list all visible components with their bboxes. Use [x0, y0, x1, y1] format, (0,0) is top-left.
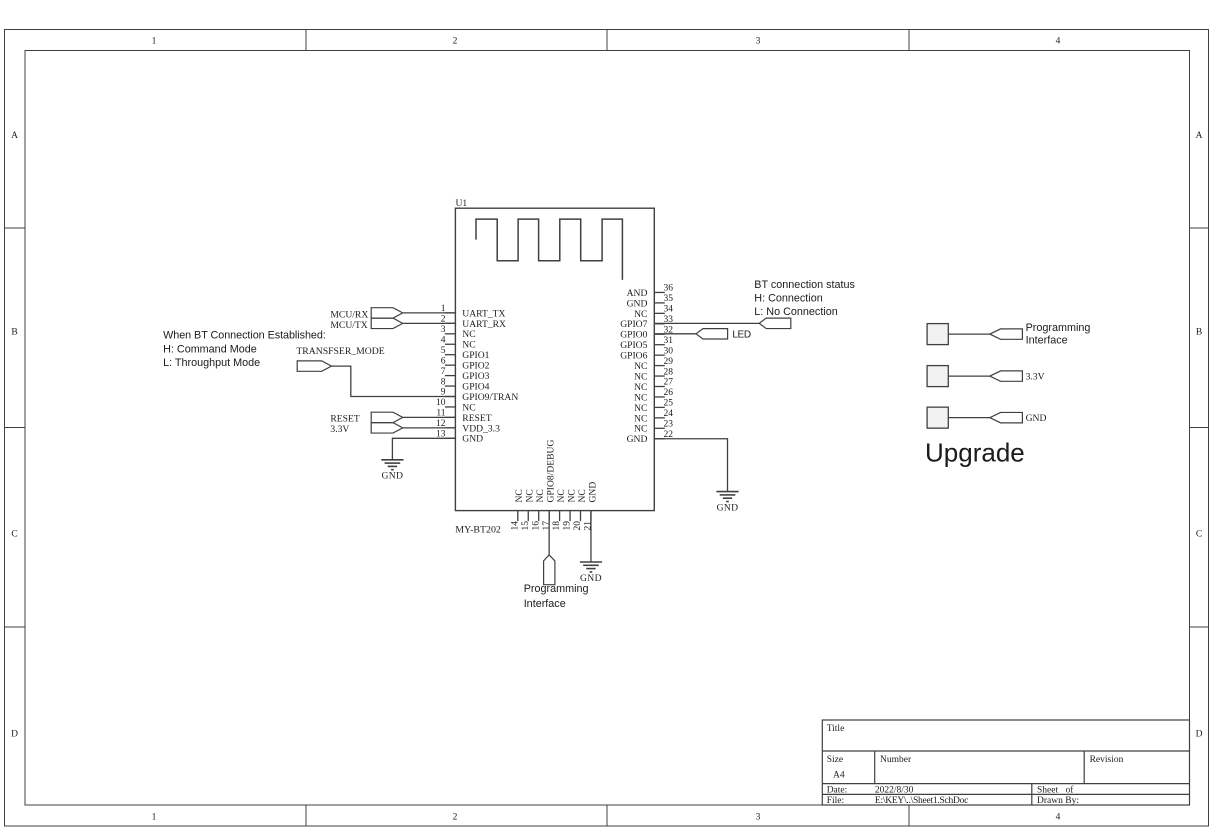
svg-text:GPIO2: GPIO2 — [462, 361, 489, 372]
svg-text:A4: A4 — [833, 771, 845, 781]
svg-text:NC: NC — [462, 340, 475, 351]
svg-text:RESET: RESET — [330, 414, 359, 425]
svg-text:GPIO8/DEBUG: GPIO8/DEBUG — [545, 440, 556, 503]
svg-text:H: Connection: H: Connection — [754, 293, 822, 305]
svg-text:A: A — [1196, 131, 1203, 141]
svg-text:VDD_3.3: VDD_3.3 — [462, 423, 500, 434]
svg-text:L: No Connection: L: No Connection — [754, 306, 837, 318]
svg-text:NC: NC — [556, 489, 567, 502]
svg-text:GND: GND — [1026, 413, 1047, 424]
svg-text:RESET: RESET — [462, 413, 491, 424]
svg-text:When BT Connection Established: When BT Connection Established: — [163, 330, 326, 342]
svg-text:AND: AND — [627, 288, 648, 299]
svg-text:2022/8/30: 2022/8/30 — [875, 786, 914, 796]
svg-text:BT connection status: BT connection status — [754, 279, 855, 291]
svg-text:L: Throughput Mode: L: Throughput Mode — [163, 357, 260, 369]
svg-text:LED: LED — [732, 330, 750, 341]
svg-text:NC: NC — [535, 489, 546, 502]
svg-text:10: 10 — [436, 398, 446, 408]
svg-text:C: C — [11, 530, 17, 540]
svg-text:Interface: Interface — [1026, 334, 1068, 346]
svg-text:NC: NC — [525, 489, 536, 502]
svg-text:D: D — [11, 730, 18, 740]
svg-text:MY-BT202: MY-BT202 — [455, 525, 501, 536]
svg-text:GPIO4: GPIO4 — [462, 381, 489, 392]
svg-text:Upgrade: Upgrade — [925, 437, 1025, 467]
svg-text:30: 30 — [664, 346, 674, 356]
svg-text:2: 2 — [453, 813, 458, 823]
svg-text:3: 3 — [756, 813, 761, 823]
svg-text:GND: GND — [627, 298, 648, 309]
svg-text:NC: NC — [462, 402, 475, 413]
svg-text:4: 4 — [1056, 813, 1061, 823]
svg-text:16: 16 — [531, 521, 541, 531]
svg-text:15: 15 — [521, 521, 531, 531]
svg-text:GPIO5: GPIO5 — [620, 340, 647, 351]
svg-text:Date:: Date: — [827, 786, 848, 796]
svg-text:3.3V: 3.3V — [330, 424, 349, 435]
svg-text:3.3V: 3.3V — [1026, 372, 1045, 383]
svg-text:NC: NC — [634, 371, 647, 382]
svg-text:MCU/RX: MCU/RX — [330, 310, 368, 321]
svg-text:NC: NC — [634, 309, 647, 320]
svg-text:A: A — [11, 131, 18, 141]
svg-text:File:: File: — [827, 796, 844, 806]
svg-text:28: 28 — [664, 367, 674, 377]
svg-text:27: 27 — [664, 378, 674, 388]
svg-text:5: 5 — [441, 346, 446, 356]
svg-text:3: 3 — [441, 325, 446, 335]
svg-text:Interface: Interface — [524, 598, 566, 610]
svg-text:B: B — [1196, 328, 1202, 338]
svg-text:GND: GND — [580, 573, 602, 584]
svg-text:NC: NC — [634, 413, 647, 424]
svg-text:GPIO9/TRAN: GPIO9/TRAN — [462, 392, 518, 403]
svg-text:GPIO1: GPIO1 — [462, 350, 489, 361]
svg-text:GND: GND — [381, 471, 403, 482]
svg-text:25: 25 — [664, 399, 674, 409]
svg-text:23: 23 — [664, 420, 674, 430]
svg-text:3: 3 — [756, 37, 761, 47]
svg-text:Programming: Programming — [1026, 322, 1091, 334]
svg-text:6: 6 — [441, 356, 446, 366]
svg-text:18: 18 — [552, 521, 562, 531]
svg-text:Size: Size — [827, 755, 843, 765]
svg-text:NC: NC — [566, 489, 577, 502]
svg-text:NC: NC — [634, 361, 647, 372]
svg-text:2: 2 — [453, 37, 458, 47]
svg-text:1: 1 — [152, 37, 157, 47]
svg-text:24: 24 — [664, 409, 674, 419]
svg-text:TRANSFSER_MODE: TRANSFSER_MODE — [296, 346, 384, 357]
svg-text:21: 21 — [584, 521, 594, 531]
svg-text:UART_RX: UART_RX — [462, 319, 506, 330]
svg-text:26: 26 — [664, 388, 674, 398]
svg-text:NC: NC — [634, 382, 647, 393]
svg-text:1: 1 — [152, 813, 157, 823]
svg-text:NC: NC — [634, 392, 647, 403]
svg-text:D: D — [1196, 730, 1203, 740]
svg-text:20: 20 — [573, 521, 583, 531]
svg-text:7: 7 — [441, 367, 446, 377]
svg-text:17: 17 — [542, 521, 552, 531]
svg-text:14: 14 — [510, 521, 520, 531]
svg-text:Programming: Programming — [524, 583, 589, 595]
svg-text:GPIO7: GPIO7 — [620, 319, 647, 330]
svg-text:31: 31 — [664, 336, 674, 346]
svg-text:NC: NC — [634, 403, 647, 414]
svg-text:4: 4 — [1056, 37, 1061, 47]
svg-text:29: 29 — [664, 357, 674, 367]
svg-text:GND: GND — [627, 434, 648, 445]
svg-text:GND: GND — [587, 482, 598, 503]
svg-text:MCU/TX: MCU/TX — [330, 320, 367, 331]
svg-text:19: 19 — [563, 521, 573, 531]
svg-text:Sheet: Sheet — [1037, 786, 1058, 796]
svg-text:NC: NC — [514, 489, 525, 502]
svg-text:GPIO0: GPIO0 — [620, 330, 647, 341]
svg-text:C: C — [1196, 530, 1202, 540]
svg-text:UART_TX: UART_TX — [462, 308, 505, 319]
svg-text:4: 4 — [441, 335, 446, 345]
svg-text:B: B — [11, 328, 17, 338]
svg-text:8: 8 — [441, 377, 446, 387]
svg-text:NC: NC — [462, 329, 475, 340]
svg-text:GND: GND — [462, 434, 483, 445]
svg-text:E:\KEY\..\Sheet1.SchDoc: E:\KEY\..\Sheet1.SchDoc — [875, 796, 968, 806]
svg-text:GPIO6: GPIO6 — [620, 351, 647, 362]
svg-text:36: 36 — [664, 284, 674, 294]
svg-text:GND: GND — [717, 503, 739, 514]
svg-text:Number: Number — [880, 755, 912, 765]
svg-text:GPIO3: GPIO3 — [462, 371, 489, 382]
svg-text:Revision: Revision — [1090, 755, 1124, 765]
svg-text:35: 35 — [664, 294, 674, 304]
svg-text:of: of — [1066, 785, 1075, 796]
svg-text:NC: NC — [634, 424, 647, 435]
svg-text:Title: Title — [827, 724, 845, 734]
svg-text:U1: U1 — [456, 198, 468, 209]
svg-text:NC: NC — [577, 489, 588, 502]
svg-text:Drawn By:: Drawn By: — [1037, 796, 1079, 806]
svg-text:H: Command Mode: H: Command Mode — [163, 344, 257, 356]
svg-text:34: 34 — [664, 305, 674, 315]
